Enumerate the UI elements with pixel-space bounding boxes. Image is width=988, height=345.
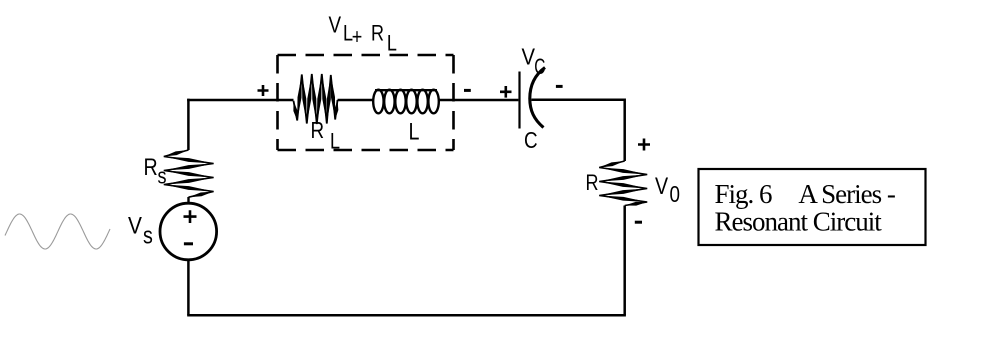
svg-text:C: C bbox=[524, 128, 538, 153]
svg-text:s: s bbox=[158, 165, 167, 189]
resistor Rs bbox=[164, 150, 214, 197]
wire top rail left segment bbox=[188, 99, 293, 100]
wire between RL and L bbox=[338, 99, 374, 102]
source Vs circle bbox=[160, 203, 217, 260]
sine wave source waveform bbox=[5, 214, 110, 249]
plus in source bbox=[184, 210, 197, 223]
dashed box around L and RL bbox=[278, 55, 454, 150]
label V0 bbox=[655, 172, 680, 208]
svg-text:A Series -: A Series - bbox=[798, 179, 895, 209]
inductor L bbox=[373, 90, 439, 114]
svg-text:L: L bbox=[330, 130, 340, 154]
svg-text:L: L bbox=[387, 32, 397, 56]
figure caption box bbox=[699, 169, 926, 245]
minus node after capacitor bbox=[556, 85, 563, 88]
wire bottom rail bbox=[187, 314, 626, 317]
wire source to bottom rail bbox=[187, 260, 190, 316]
svg-text:C: C bbox=[534, 55, 545, 79]
wire stub Rs to source bbox=[187, 197, 189, 204]
wire right branch below R bbox=[623, 206, 626, 316]
wire left vertical top bbox=[187, 99, 190, 150]
plus node above R bbox=[638, 139, 650, 151]
svg-text:Fig. 6: Fig. 6 bbox=[715, 179, 773, 209]
label RL bbox=[311, 118, 341, 154]
svg-text:V: V bbox=[329, 13, 342, 38]
svg-text:L: L bbox=[409, 118, 420, 145]
svg-text:R: R bbox=[586, 171, 599, 195]
minus in source bbox=[184, 242, 193, 245]
svg-text:V: V bbox=[522, 43, 536, 70]
resistor RL bbox=[294, 74, 338, 124]
svg-text:V: V bbox=[128, 212, 142, 239]
plus node before capacitor bbox=[500, 86, 512, 98]
svg-text:+: + bbox=[352, 25, 363, 49]
label V_L+RL title bbox=[329, 13, 397, 56]
minus node after box bbox=[464, 89, 471, 92]
minus node below R bbox=[635, 221, 642, 224]
capacitor C left plate bbox=[518, 72, 520, 129]
resistor R bbox=[599, 161, 647, 206]
capacitor C curved plate bbox=[530, 68, 545, 128]
wire between L and capacitor bbox=[439, 99, 519, 102]
svg-text:V: V bbox=[655, 172, 668, 199]
label Vs bbox=[128, 212, 153, 249]
svg-text:R: R bbox=[371, 22, 384, 46]
label VC bbox=[522, 43, 546, 80]
wire capacitor to top-right corner and down bbox=[532, 100, 625, 161]
svg-text:R: R bbox=[311, 118, 325, 143]
caption text line 1 bbox=[715, 179, 896, 209]
plus node before box bbox=[258, 85, 269, 96]
svg-text:R: R bbox=[144, 153, 158, 180]
label Rs bbox=[144, 153, 167, 189]
svg-text:0: 0 bbox=[670, 182, 680, 207]
svg-text:Resonant Circuit: Resonant Circuit bbox=[715, 206, 883, 236]
svg-text:s: s bbox=[143, 222, 153, 249]
